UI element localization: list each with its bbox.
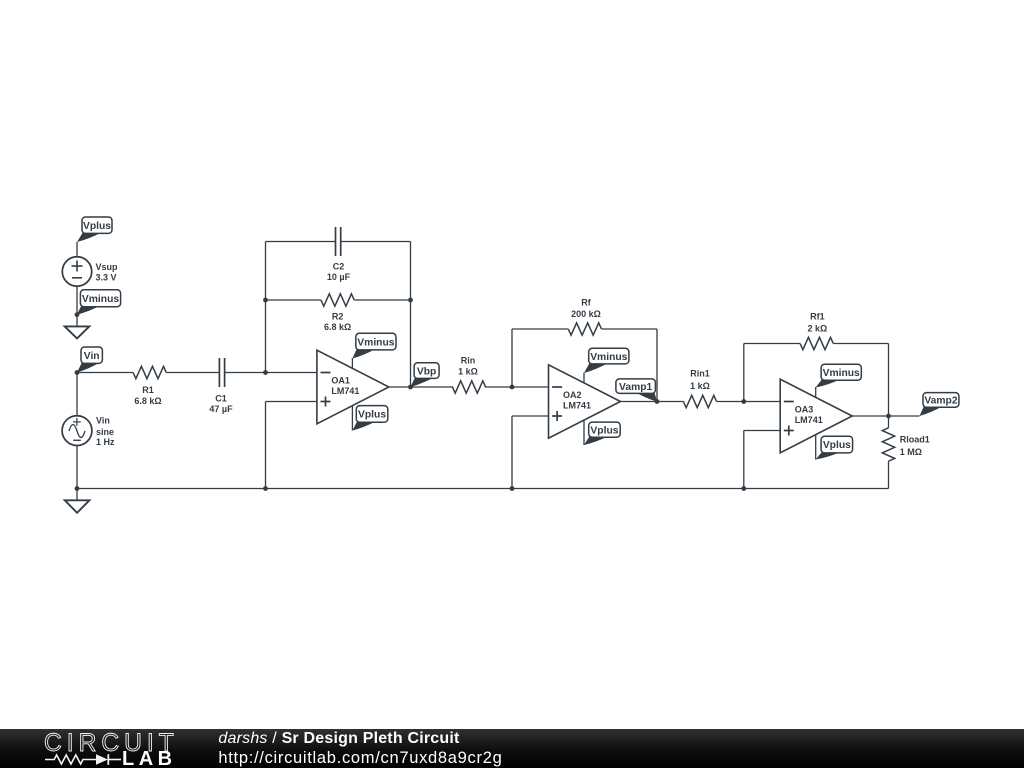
- svg-text:1 MΩ: 1 MΩ: [900, 447, 922, 457]
- svg-text:LM741: LM741: [795, 415, 823, 425]
- svg-text:Vsup: Vsup: [96, 262, 119, 272]
- svg-text:Vplus: Vplus: [83, 221, 111, 232]
- svg-text:Vplus: Vplus: [358, 410, 386, 421]
- svg-text:Vminus: Vminus: [357, 337, 394, 348]
- svg-text:LAB: LAB: [122, 748, 177, 768]
- svg-text:Vin: Vin: [96, 415, 110, 425]
- svg-text:Vplus: Vplus: [823, 440, 851, 451]
- svg-text:sine: sine: [96, 427, 114, 437]
- svg-text:Vplus: Vplus: [590, 425, 618, 436]
- svg-text:OA3: OA3: [795, 405, 814, 415]
- svg-text:3.3 V: 3.3 V: [96, 272, 117, 282]
- svg-text:Vamp1: Vamp1: [619, 382, 652, 393]
- svg-text:Rload1: Rload1: [900, 434, 930, 444]
- svg-text:2 kΩ: 2 kΩ: [808, 323, 828, 333]
- svg-text:1 kΩ: 1 kΩ: [690, 381, 710, 391]
- svg-text:Vminus: Vminus: [590, 352, 627, 363]
- svg-text:C2: C2: [333, 262, 345, 272]
- svg-text:http://circuitlab.com/cn7uxd8a: http://circuitlab.com/cn7uxd8a9cr2g: [218, 749, 502, 767]
- svg-text:6.8 kΩ: 6.8 kΩ: [134, 396, 161, 406]
- svg-text:Rin: Rin: [461, 356, 476, 366]
- svg-text:47 µF: 47 µF: [209, 404, 233, 414]
- svg-text:Vamp2: Vamp2: [924, 396, 957, 407]
- svg-text:R1: R1: [142, 385, 154, 395]
- svg-text:darshs / Sr Design Pleth Circu: darshs / Sr Design Pleth Circuit: [218, 730, 460, 747]
- svg-text:6.8 kΩ: 6.8 kΩ: [324, 322, 351, 332]
- svg-text:LM741: LM741: [563, 401, 591, 411]
- svg-text:OA2: OA2: [563, 390, 582, 400]
- svg-text:10 µF: 10 µF: [327, 272, 351, 282]
- svg-text:Rf: Rf: [581, 297, 591, 307]
- svg-text:Vin: Vin: [84, 351, 100, 362]
- svg-text:Vbp: Vbp: [417, 366, 436, 377]
- svg-text:Rin1: Rin1: [690, 369, 710, 379]
- svg-text:200 kΩ: 200 kΩ: [571, 309, 601, 319]
- svg-text:1 kΩ: 1 kΩ: [458, 366, 478, 376]
- svg-text:1 Hz: 1 Hz: [96, 437, 115, 447]
- svg-text:OA1: OA1: [331, 376, 350, 386]
- svg-text:Rf1: Rf1: [810, 312, 825, 322]
- svg-text:C1: C1: [215, 393, 227, 403]
- svg-text:Vminus: Vminus: [82, 294, 119, 305]
- svg-text:R2: R2: [332, 312, 344, 322]
- svg-text:Vminus: Vminus: [823, 368, 860, 379]
- svg-text:LM741: LM741: [331, 386, 359, 396]
